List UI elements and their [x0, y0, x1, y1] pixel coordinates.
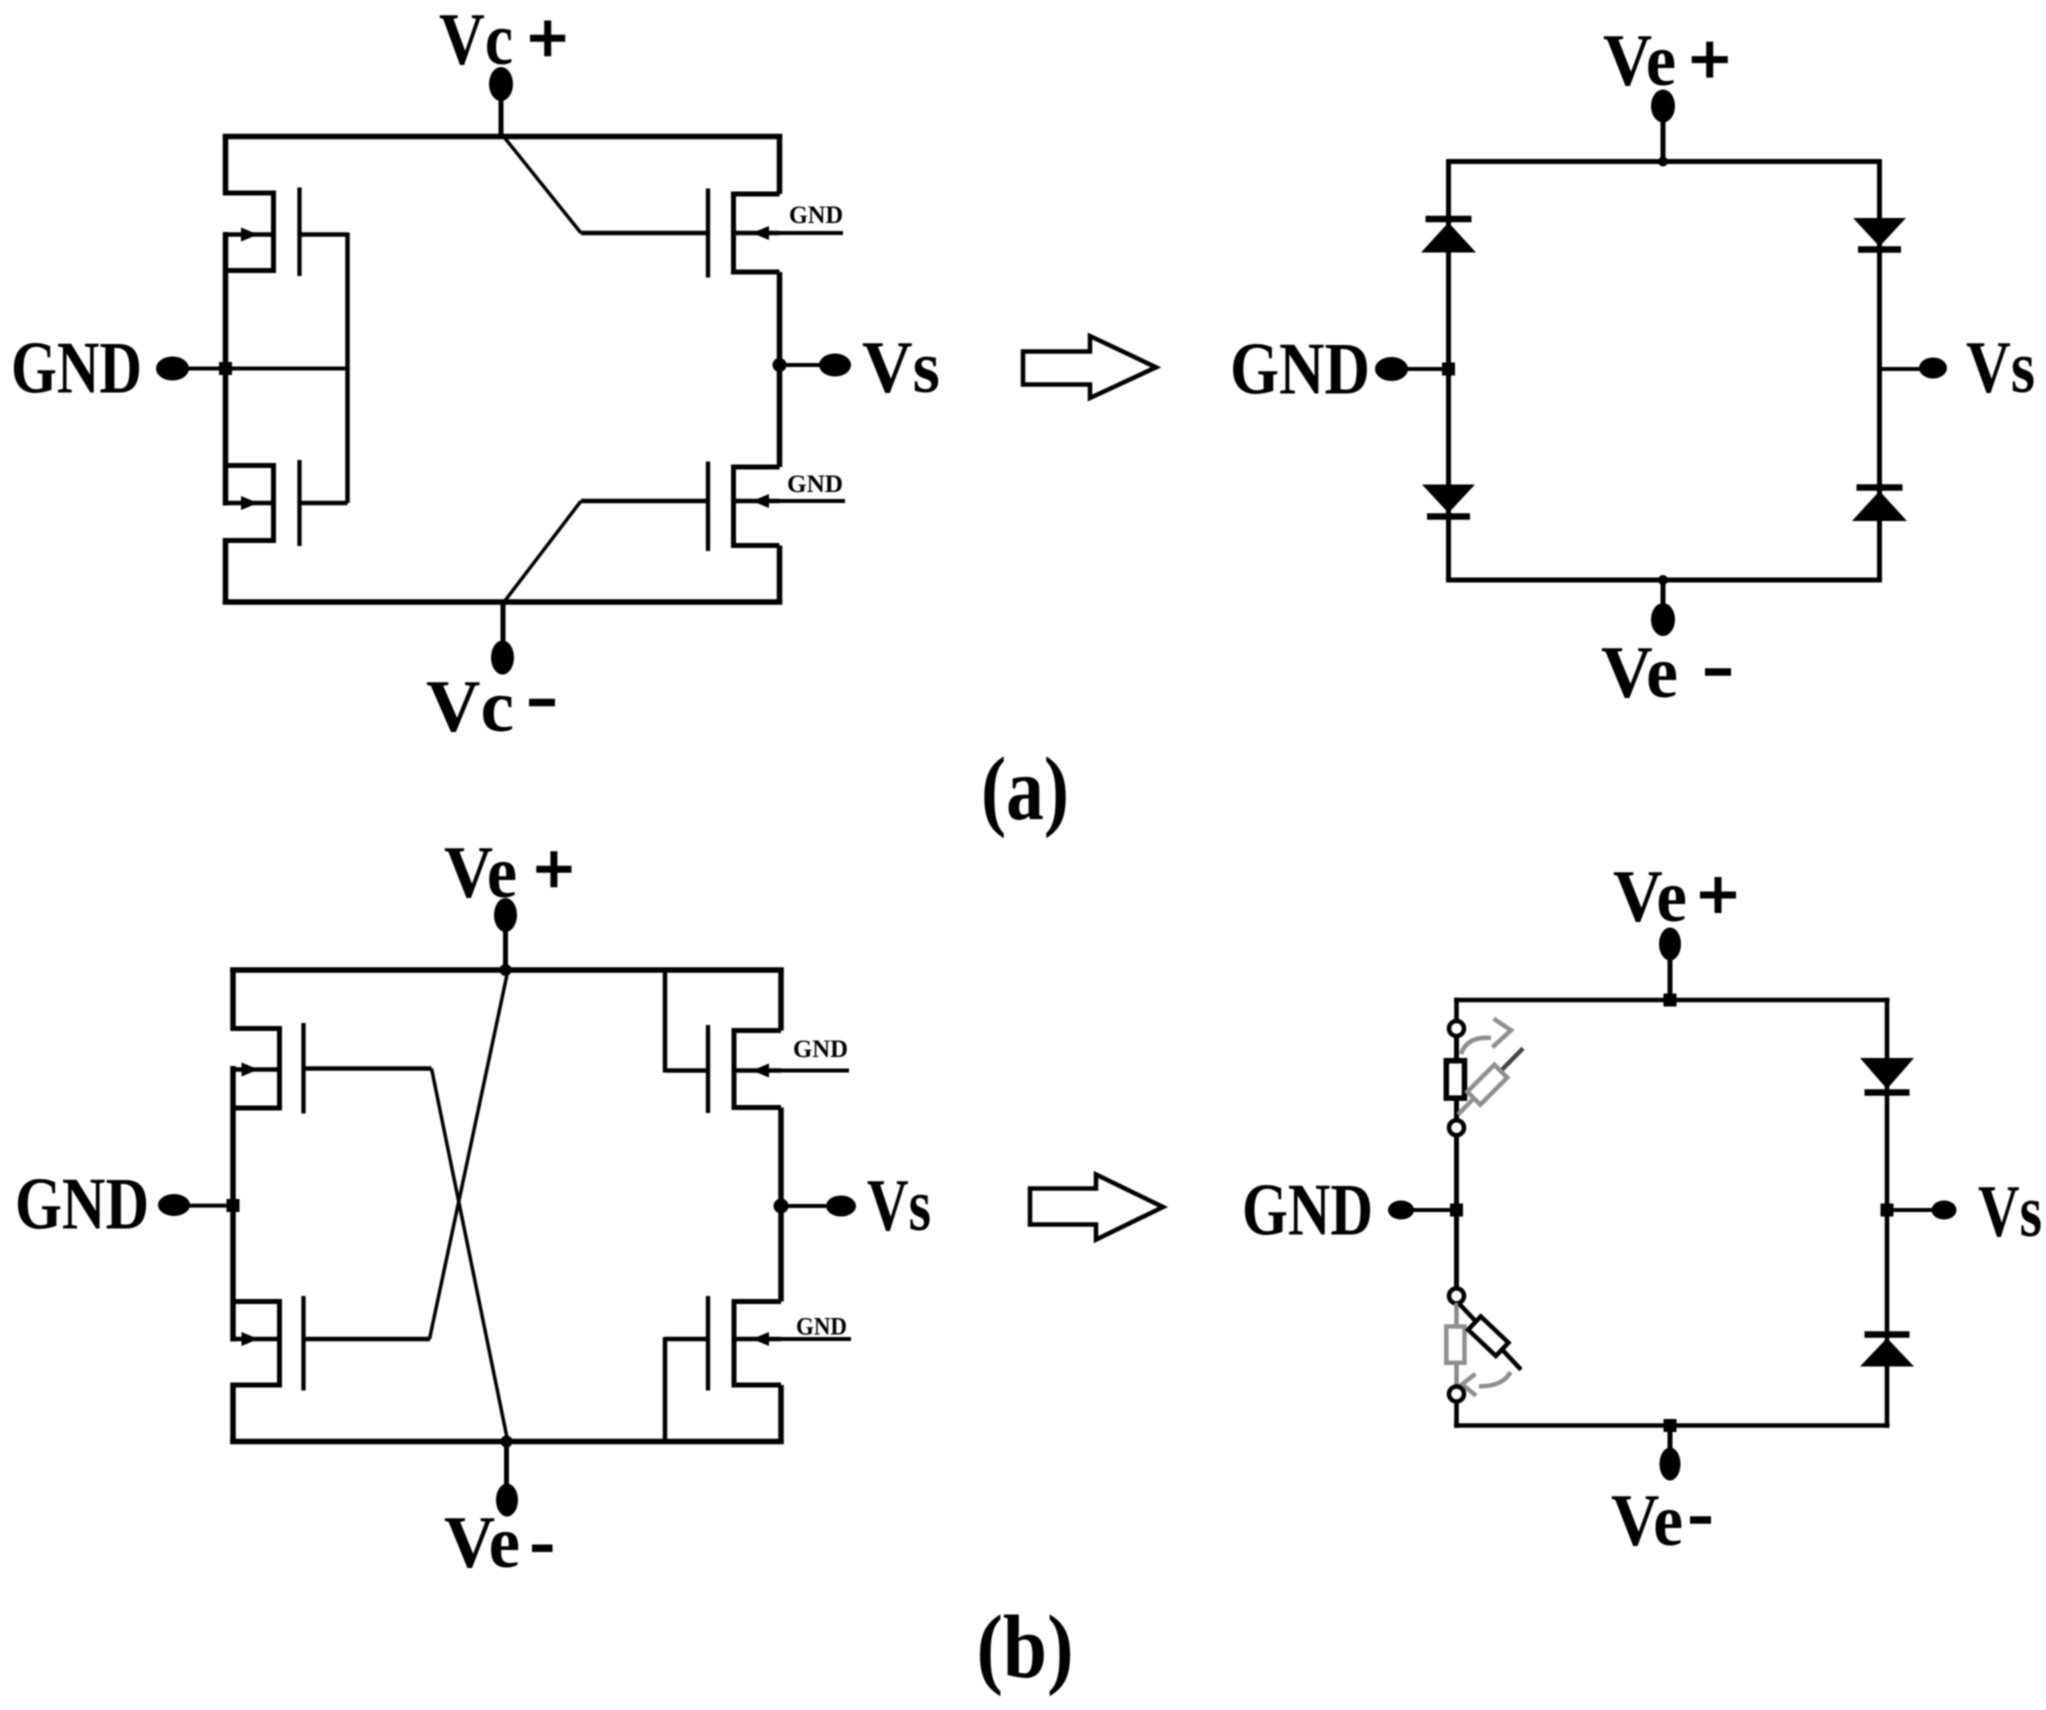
- wire: right rail middle segment (source of M7 to Vs to source of M8): [778, 1108, 784, 1302]
- wire: left rail upper segment (drain of M1): [223, 134, 229, 196]
- label (a) panel caption: [981, 740, 1069, 839]
- svg-text:GND: GND: [787, 471, 843, 498]
- svg-text:GND: GND: [11, 328, 142, 410]
- junction dot on left rail at GND (a-left): [219, 362, 232, 375]
- node Vs output terminal (a-left circuit): [773, 354, 852, 377]
- switch terminal circle (b-right top assembly, lower): [1449, 1120, 1464, 1135]
- svg-text:Vs: Vs: [862, 327, 940, 409]
- svg-text:Ve: Ve: [1601, 632, 1678, 714]
- label Ve - (a-right): [1601, 632, 1731, 714]
- switch terminal circle (b-right top assembly, upper): [1449, 1021, 1464, 1036]
- svg-text:Vc: Vc: [439, 0, 513, 81]
- transistor M5 (b top-left): [233, 1023, 304, 1114]
- node Ve+ terminal (b-right): [1659, 928, 1681, 1007]
- wire: right rail lower segment (drain of M4 to bottom rail): [777, 546, 783, 605]
- wire: M4 body tie to external GND (a bottom-right): [735, 499, 845, 503]
- transistor M3 (a top-right): [708, 189, 780, 278]
- diode D3 (a-right bottom-left, pointing down): [1422, 485, 1475, 517]
- svg-text:Ve: Ve: [1613, 856, 1687, 938]
- wire: right rail upper segment (drain of M3): [777, 134, 783, 194]
- wire: right rail middle segment (source of M3 to Vs to source of M4): [777, 272, 783, 467]
- wire: diagonal from Vc+ node to M3 gate: [504, 137, 581, 233]
- wire: right rail lower segment (drain of M8 to bottom rail): [778, 1385, 784, 1444]
- wire: right rail (b-right): [1885, 998, 1890, 1428]
- wire: right rail upper segment (drain of M7): [778, 968, 784, 1031]
- label Ve + (a-right): [1603, 20, 1728, 102]
- wire: top rail (a-right): [1446, 159, 1882, 164]
- label GND (b-left): [15, 1164, 149, 1246]
- arrow: implication arrow panel (a): [1023, 336, 1156, 398]
- wire: M7 body tie to external GND (b top-right): [736, 1069, 849, 1073]
- svg-text:Ve: Ve: [444, 832, 517, 914]
- node GND input terminal (a-right): [1375, 357, 1455, 381]
- diode D6 (b-right bottom, pointing up): [1860, 1335, 1914, 1367]
- svg-text:GND: GND: [793, 1036, 848, 1063]
- label GND (a-right): [1230, 329, 1370, 411]
- svg-text:Ve: Ve: [444, 1502, 520, 1584]
- wire: top rail (b-left): [230, 967, 784, 973]
- wire: top rail (a-left): [223, 134, 782, 140]
- wire: bottom rail (a-left): [223, 599, 782, 605]
- svg-text:Ve: Ve: [1603, 20, 1676, 102]
- node Vs output terminal (b-left circuit): [774, 1196, 857, 1217]
- svg-text:(b): (b): [977, 1598, 1074, 1697]
- wire: left rail lower segment (drain of M6 to bottom rail): [230, 1383, 236, 1445]
- svg-text:GND: GND: [796, 1314, 847, 1341]
- node Vc+ terminal (a-left): [489, 67, 513, 139]
- label Ve - (b-left): [444, 1502, 553, 1584]
- diode D5 (b-right top, pointing down): [1860, 1058, 1914, 1093]
- svg-text:Vc: Vc: [426, 666, 514, 748]
- wire: M4 gate lead: [581, 499, 708, 504]
- label Ve + (b-right): [1613, 856, 1736, 938]
- node GND input terminal (b-left): [158, 1194, 240, 1216]
- wire: left rail (a-right): [1446, 159, 1451, 583]
- transistor M7 (b top-right): [708, 1025, 781, 1113]
- svg-text:Vs: Vs: [1966, 327, 2035, 409]
- label Vs (a-left circuit): [862, 327, 940, 409]
- wire: left rail middle segment (source/body of M5 to GND to source/body of M6): [230, 1066, 236, 1342]
- transistor M6 (b bottom-left): [233, 1296, 304, 1391]
- label Vs (b-left circuit): [867, 1165, 931, 1247]
- node Ve- terminal (b-right): [1660, 1419, 1681, 1481]
- label GND (a-left): [11, 328, 142, 410]
- wire: M3 gate lead: [581, 231, 708, 236]
- switch arm with resistor R2' (b-right bottom, closed diagonal, black): [1459, 1304, 1521, 1370]
- transistor M1 (a top-left): [226, 188, 300, 277]
- wire: M1 gate lead to gate bus: [300, 233, 348, 504]
- resistor R1 (b-right top, fixed vertical): [1446, 1035, 1464, 1121]
- node Ve+ terminal (a-right): [1651, 90, 1675, 167]
- switch arm with resistor R1' (b-right top, thrown position, gray): [1458, 1048, 1523, 1114]
- diode D4 (a-right bottom-right, pointing up): [1852, 488, 1907, 522]
- transistor M8 (b bottom-right): [708, 1296, 781, 1391]
- wire: M2 gate lead to gate bus: [300, 501, 348, 506]
- node Ve- terminal (b-left): [496, 1436, 518, 1517]
- wire: M3 body tie to external GND (a top-right): [735, 231, 843, 235]
- wire: left rail lower segment (drain of M2 to bottom rail): [223, 538, 229, 605]
- node Ve- terminal (a-right): [1651, 575, 1675, 636]
- rotation arrow (b-right top, gray): [1461, 1019, 1511, 1054]
- svg-text:GND: GND: [15, 1164, 149, 1246]
- wire: diagonal from M5 gate to Vc- node (crossing): [432, 1069, 508, 1442]
- label Ve + (b-left): [444, 832, 572, 914]
- label (b) panel caption: [977, 1598, 1074, 1697]
- wire: bottom rail (a-right): [1446, 578, 1882, 583]
- wire: M5 gate lead: [304, 1066, 432, 1071]
- node Ve+ terminal (b-left): [494, 898, 517, 976]
- wire: M8 body tie to external GND (b bottom-right): [736, 1337, 851, 1341]
- wire: GND input line to gate bus: [186, 367, 348, 371]
- label GND at M8 body: [796, 1314, 847, 1341]
- label GND at M3 body: [789, 202, 843, 229]
- svg-text:Vs: Vs: [1978, 1171, 2042, 1253]
- label GND at M7 body: [793, 1036, 848, 1063]
- switch terminal circle (b-right bottom assembly, upper): [1449, 1288, 1464, 1303]
- node Vc- terminal (a-left): [491, 600, 514, 675]
- label Vc + (a-left): [439, 0, 565, 81]
- wire: left rail middle segment (source/body of M1 to GND to source/body of M2): [223, 232, 229, 506]
- wire: top rail (b-right): [1454, 998, 1890, 1003]
- svg-text:GND: GND: [1242, 1170, 1373, 1252]
- svg-text:GND: GND: [789, 202, 843, 229]
- label Vc - (a-left): [426, 666, 555, 748]
- arrow: implication arrow panel (b): [1030, 1175, 1163, 1240]
- label Ve - (b-right): [1611, 1480, 1711, 1562]
- switch terminal circle (b-right bottom assembly, lower): [1449, 1387, 1464, 1402]
- svg-text:Vs: Vs: [867, 1165, 931, 1247]
- wire: right rail (a-right): [1877, 159, 1882, 583]
- wire: left rail segments (b-right): [1454, 998, 1459, 1428]
- node GND input terminal (b-right): [1388, 1201, 1463, 1220]
- node Vs output terminal (b-right): [1881, 1201, 1957, 1220]
- node Vs output terminal (a-right): [1880, 358, 1948, 379]
- diode D1 (a-right top-left, pointing up): [1421, 219, 1476, 253]
- wire: diagonal from M6 gate to Vc+ node (crossing): [430, 970, 509, 1339]
- wire: M8 gate lead to bottom rail: [665, 1337, 708, 1444]
- svg-text:(a): (a): [981, 740, 1069, 839]
- wire: M6 gate lead: [304, 1337, 431, 1342]
- transistor M2 (a bottom-left): [226, 460, 300, 546]
- label Vs (a-right): [1966, 327, 2035, 409]
- label GND at M4 body: [787, 471, 843, 498]
- resistor R2 (b-right bottom, vertical, gray): [1446, 1303, 1464, 1388]
- wire: bottom rail (b-right): [1454, 1423, 1890, 1428]
- label GND (b-right): [1242, 1170, 1373, 1252]
- wire: bottom rail (b-left): [230, 1439, 784, 1445]
- svg-text:GND: GND: [1230, 329, 1370, 411]
- node GND input terminal (a-left): [156, 357, 189, 381]
- transistor M4 (a bottom-right): [708, 462, 780, 552]
- label Vs (b-right): [1978, 1171, 2042, 1253]
- wire: left rail upper segment (drain of M5): [230, 968, 236, 1032]
- wire: diagonal from Vc- node to M4 gate: [504, 501, 581, 602]
- diode D2 (a-right top-right, pointing down): [1853, 218, 1906, 250]
- wire: M7 gate lead to top rail: [665, 968, 708, 1073]
- rotation arrow (b-right bottom, gray): [1462, 1372, 1511, 1396]
- svg-text:Ve: Ve: [1611, 1480, 1683, 1562]
